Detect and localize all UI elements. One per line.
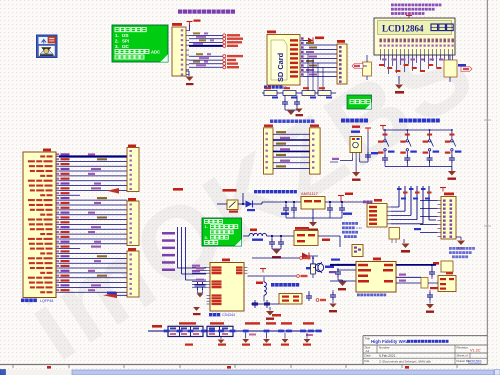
lcd annotation lines	[391, 4, 394, 7]
u6 right wires	[396, 264, 436, 266]
svg-text:1.: 1.	[205, 224, 208, 229]
decouple caps B	[303, 322, 314, 324]
svg-text:3.: 3.	[205, 235, 208, 240]
buttons title	[399, 119, 403, 123]
svg-text:I2S: I2S	[122, 33, 129, 38]
svg-text:V1.2C: V1.2C	[470, 349, 481, 353]
header JP6	[128, 198, 136, 201]
buttons ground	[448, 171, 456, 176]
wires J1 to ports	[189, 34, 223, 36]
cap C15	[280, 236, 282, 240]
lcd wires down	[380, 55, 382, 60]
svg-text:9-Feb-2021: 9-Feb-2021	[379, 354, 396, 358]
lcd left port	[352, 64, 363, 69]
hp port1	[300, 257, 303, 260]
button K1	[384, 130, 386, 139]
buttons bottom rail	[385, 166, 452, 168]
hp wire2	[248, 275, 297, 277]
vcc above lcd	[408, 16, 410, 20]
svg-text:High Fidelity WAV: High Fidelity WAV	[371, 339, 408, 344]
jtag gnd	[403, 239, 405, 243]
jtag note	[449, 247, 452, 250]
ir vcc	[367, 128, 369, 132]
regulator ground	[312, 209, 314, 222]
regulator output wire	[325, 201, 370, 203]
svg-text:SD Card: SD Card	[276, 52, 285, 82]
regulator U7	[295, 227, 309, 230]
diode D2	[297, 252, 302, 256]
lcd contrast pot RV1	[444, 60, 457, 77]
vertical nets	[177, 227, 179, 268]
reset ic U6	[373, 258, 381, 261]
u6 caption	[357, 294, 360, 297]
jtag header wires	[420, 200, 438, 202]
ports J1	[223, 34, 226, 37]
u7 output	[318, 235, 340, 237]
hp wire top	[252, 257, 299, 259]
hp port2	[297, 275, 300, 278]
cap C17	[312, 261, 314, 264]
ir cap	[367, 152, 369, 155]
svg-text:AMS1117: AMS1117	[301, 191, 319, 196]
sd caps	[284, 99, 286, 102]
note lcd part	[347, 95, 372, 109]
svg-text:C:\Documents and Settings\..\W: C:\Documents and Settings\..\WAV.ddb	[379, 359, 431, 363]
jtag ic U5	[374, 199, 382, 202]
small ic U8	[352, 245, 363, 257]
ground caps	[271, 246, 273, 249]
mcu U2	[43, 149, 51, 152]
bluetooth title	[270, 120, 273, 123]
button K2	[406, 130, 408, 139]
hp resistor R30	[311, 264, 316, 274]
sd vcc diode	[303, 40, 308, 42]
note expansion interface	[112, 25, 168, 62]
svg-text:SPI: SPI	[122, 38, 129, 43]
vcc jtag	[442, 188, 444, 192]
bluetooth gnd top	[295, 109, 302, 113]
svg-text:CS4344: CS4344	[222, 313, 235, 317]
cap C12	[329, 202, 331, 206]
buttons rail	[383, 129, 452, 131]
diode D1	[238, 203, 246, 205]
thick net to u6	[330, 264, 356, 266]
connector J1	[172, 23, 182, 26]
filter input label	[152, 325, 162, 328]
ir ground	[352, 172, 360, 177]
svg-text:A4: A4	[366, 349, 370, 353]
header JP7	[128, 248, 136, 251]
button K3	[429, 130, 431, 139]
cap C10	[285, 202, 287, 206]
sd ground	[284, 107, 286, 110]
svg-text:LQFP48: LQFP48	[40, 299, 53, 303]
svg-text:I2C: I2C	[122, 44, 130, 49]
svg-text:1.: 1.	[115, 33, 119, 38]
horizontal scrollbar	[0, 370, 500, 375]
vcc flag 3.3V	[340, 196, 342, 200]
sd card SD1	[267, 31, 276, 34]
bulk cap C20	[245, 322, 260, 324]
svg-text:Sheet of: Sheet of	[457, 354, 468, 358]
dac left wires	[192, 267, 207, 269]
svg-text:Number: Number	[379, 346, 390, 350]
svg-text:LCD12864: LCD12864	[382, 24, 424, 34]
bulk cap C21	[266, 322, 276, 324]
cap C13	[341, 202, 343, 206]
filter block FB2	[210, 322, 224, 324]
ir receiver U3	[351, 131, 360, 133]
sheet zone labels	[47, 366, 51, 369]
vertical net labels	[162, 232, 175, 235]
u6 left cap C31	[330, 280, 337, 282]
cap C14	[271, 236, 273, 240]
aux ic U12	[433, 262, 439, 265]
lcd right port	[461, 67, 472, 72]
aux ic U13	[446, 272, 453, 274]
svg-text:File: File	[365, 359, 370, 363]
lcd net labels	[379, 64, 384, 66]
filter wire	[148, 330, 322, 332]
jtag gnd 2	[456, 236, 461, 238]
bus arrow upper	[107, 188, 119, 194]
sd caption	[264, 86, 267, 89]
power label	[223, 189, 237, 192]
u6 right gnd	[431, 276, 433, 279]
svg-text:ADC: ADC	[151, 50, 160, 55]
sd pull-up resistors	[262, 92, 336, 94]
bus arrow lower	[103, 293, 117, 299]
decouple caps A	[281, 322, 292, 324]
bluetooth wires	[273, 133, 310, 135]
hp ground	[269, 307, 271, 311]
crystal labels	[397, 188, 402, 190]
jtag wires to verticals	[391, 206, 399, 208]
audio vcc	[173, 188, 183, 191]
mcu caption	[21, 299, 25, 303]
u6 right caps	[431, 265, 433, 270]
svg-text:Title: Title	[365, 337, 371, 341]
sheet bottom border	[0, 364, 487, 366]
hp amp U10	[279, 294, 302, 305]
svg-text:3.: 3.	[115, 44, 119, 49]
cap C16 red label	[322, 239, 330, 242]
button K4	[451, 130, 453, 139]
wire to regulator	[253, 203, 263, 205]
bluetooth header J4	[310, 125, 319, 127]
dac left gnd2	[193, 307, 200, 311]
power switch SW1	[227, 200, 238, 210]
hp note text	[271, 283, 275, 287]
svg-text:3.3V: 3.3V	[356, 226, 362, 230]
regulator title	[254, 190, 257, 193]
svg-text:Revision: Revision	[457, 346, 469, 350]
cap C11	[293, 202, 295, 206]
filter block FB1	[179, 322, 196, 324]
ir title	[341, 119, 345, 123]
header JP5	[128, 145, 136, 148]
lcd module LCD1	[374, 18, 455, 55]
svg-text:2.: 2.	[115, 38, 119, 43]
embedded object icon	[37, 35, 58, 58]
hp inductor L2	[256, 282, 263, 285]
crystal caps	[401, 198, 406, 200]
lcd ground	[398, 76, 400, 84]
hp transistor Q1	[315, 263, 323, 271]
sd wires to header	[303, 44, 337, 46]
svg-text:MOKZBS: MOKZBS	[468, 359, 481, 363]
fsmc header J2	[337, 40, 345, 43]
note clock power	[202, 218, 242, 246]
jtag header JP10	[444, 193, 454, 196]
ldo note	[342, 222, 345, 225]
lcd pin labels	[380, 39, 382, 43]
filter gnd FB2	[220, 337, 222, 340]
u6 left cap C30	[331, 259, 340, 261]
net labels mcu	[59, 155, 127, 157]
svg-text:Date: Date	[365, 354, 372, 358]
dac caption	[209, 313, 212, 316]
bluetooth header J3	[264, 125, 273, 127]
aux box U11	[389, 228, 400, 240]
top annotation	[178, 10, 182, 14]
caps right of u11	[414, 228, 421, 230]
hp caps	[251, 303, 279, 305]
hp out caps	[308, 293, 310, 296]
power flag VCC	[189, 22, 191, 26]
dac U9	[222, 259, 230, 262]
sheet right border	[486, 0, 488, 365]
dac left caps	[197, 282, 199, 285]
inductor L1	[250, 229, 257, 232]
vcc hp	[262, 269, 264, 273]
ground J1	[188, 71, 190, 76]
ir wires	[352, 158, 354, 161]
lcd left component R20	[363, 62, 372, 76]
title block	[363, 335, 487, 337]
